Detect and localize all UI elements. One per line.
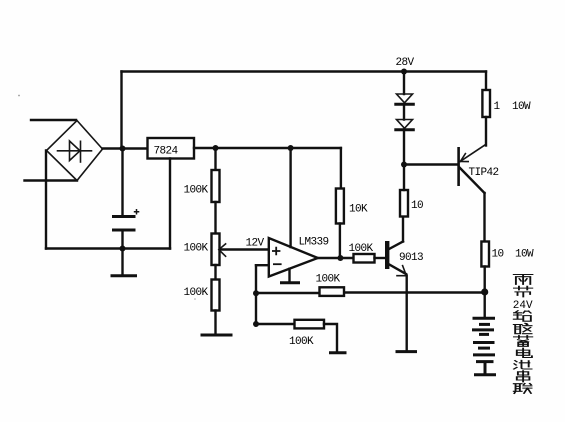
wire cap top lead [121, 149, 123, 215]
svg-text:LM339: LM339 [299, 237, 329, 249]
wire diode chain [403, 72, 405, 165]
wire 10K top [340, 148, 342, 189]
svg-text:100K: 100K [349, 243, 374, 255]
wire divider top [214, 148, 216, 170]
speck artifact left [18, 95, 20, 97]
speck artifact mid [194, 298, 196, 300]
bridge rectifier BR1 [47, 121, 103, 181]
wire R7 to battery node [484, 267, 486, 293]
wire minus input [256, 264, 269, 266]
char xu [514, 336, 532, 347]
node bridge output [120, 146, 126, 152]
resistor R3 10K [336, 189, 368, 224]
wire Q2 collector down [483, 193, 485, 242]
battery BT1 [474, 318, 495, 374]
wire TIP42 base [404, 163, 458, 165]
wire RP1 to R2 [214, 265, 216, 280]
svg-text:10W: 10W [512, 101, 531, 113]
diode D1 [396, 94, 414, 104]
resistor R1 100K [184, 170, 220, 202]
svg-text:12V: 12V [246, 238, 265, 250]
svg-text:10K: 10K [349, 204, 368, 216]
wire LM339 V+ pin [289, 148, 291, 247]
node inverting input sense [253, 290, 259, 296]
wire R6 to emitter [485, 117, 487, 146]
resistor R8 100K sense [316, 274, 345, 296]
resistor R4 100K base [349, 243, 375, 263]
label 28V [396, 57, 415, 69]
resistor R5 10 [400, 190, 423, 217]
ground LM339 [282, 281, 299, 284]
wire R5 top to diode node [403, 165, 405, 191]
wire bridge left arm down [45, 151, 47, 249]
char jie [514, 286, 532, 297]
regulator U2 7824 [148, 138, 195, 159]
wire Q1 emitter down [406, 276, 408, 351]
svg-text:10W: 10W [515, 249, 534, 261]
wire sense line [256, 291, 485, 294]
wire bridge output to regulator [103, 147, 148, 149]
op-amp U1 LM339 [269, 237, 329, 277]
node diode junction [401, 162, 407, 168]
wire ground rail bottom left [46, 247, 170, 249]
wire riser to top rail [120, 72, 122, 149]
wire 24V rail [194, 147, 341, 149]
node LM339 supply tap [288, 145, 294, 151]
char dian [517, 348, 532, 357]
node 28V [401, 69, 407, 75]
svg-text:24V: 24V [513, 300, 533, 312]
char suan [514, 323, 532, 333]
capacitor C1 [114, 209, 140, 230]
svg-text:1: 1 [494, 101, 501, 113]
resistor R9 100K feedback [289, 320, 324, 348]
wire 10K bottom [339, 224, 341, 259]
wire ground stub [121, 249, 123, 275]
label 12V [246, 238, 265, 250]
svg-text:7824: 7824 [154, 146, 179, 158]
svg-text:28V: 28V [396, 57, 415, 69]
resistor R6 1 10W [482, 90, 531, 117]
ground feedback [331, 351, 346, 354]
svg-text:100K: 100K [289, 336, 314, 348]
transistor Q1 9013 [385, 241, 423, 276]
resistor R7 10 10W [481, 242, 534, 267]
wire R2 to ground [214, 311, 216, 334]
wire R4 to base [375, 257, 386, 259]
wire Q1 collector riser [402, 217, 404, 242]
svg-text:10: 10 [492, 249, 504, 261]
ground Q1 emitter [397, 350, 416, 353]
char lian [514, 384, 532, 394]
wire R9 to ground [324, 324, 337, 352]
diode D2 [396, 120, 414, 130]
potentiometer RP1 100K [184, 234, 226, 266]
char liang [514, 275, 533, 285]
node output [337, 255, 343, 261]
wire LM339 ground pin [288, 269, 290, 282]
svg-text:100K: 100K [184, 287, 209, 299]
svg-text:100K: 100K [184, 185, 209, 197]
node filter ground [120, 246, 126, 252]
resistor R2 100K [184, 280, 220, 311]
char chi [514, 360, 532, 369]
ground divider [202, 334, 231, 337]
wire AC input bottom [25, 179, 78, 181]
svg-text:TIP42: TIP42 [469, 167, 499, 179]
node feedback tap [253, 321, 259, 327]
node 24V divider tap [213, 145, 219, 151]
wire top rail 28V [122, 70, 487, 72]
svg-text:9013: 9013 [399, 252, 423, 264]
ground main filter [112, 274, 136, 277]
wire R6 top lead [485, 72, 487, 91]
wire cap bottom lead [121, 232, 123, 249]
svg-text:10: 10 [411, 200, 423, 212]
wire AC input top [31, 119, 76, 121]
svg-text:100K: 100K [316, 274, 341, 286]
wire wiper to plus input [220, 248, 269, 250]
svg-text:100K: 100K [184, 243, 209, 255]
wire R1 to RP1 [214, 202, 216, 234]
wire feedback branch [256, 323, 295, 325]
char qian [514, 311, 531, 322]
wire inverting node riser [255, 265, 257, 324]
wire battery top lead [484, 292, 486, 317]
node battery plus [481, 288, 488, 295]
transistor Q2 TIP42 [457, 144, 498, 193]
wire 7824 ground pin [169, 159, 171, 249]
label battery chinese column [513, 275, 533, 394]
wire comparator output [318, 257, 354, 259]
char chuan [517, 371, 530, 382]
